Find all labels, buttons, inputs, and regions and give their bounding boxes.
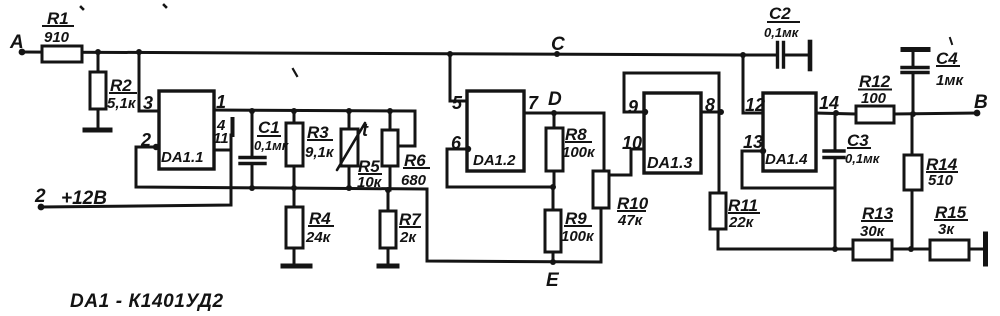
svg-text:100к: 100к xyxy=(561,228,595,245)
svg-text:12: 12 xyxy=(745,95,765,115)
svg-text:510: 510 xyxy=(928,172,954,189)
svg-text:100к: 100к xyxy=(562,144,596,161)
svg-text:3: 3 xyxy=(143,93,153,113)
svg-text:2: 2 xyxy=(140,130,151,150)
svg-text:30к: 30к xyxy=(860,223,886,240)
svg-text:1мк: 1мк xyxy=(936,72,964,89)
svg-text:C2: C2 xyxy=(769,4,791,23)
svg-text:5,1к: 5,1к xyxy=(107,95,137,112)
svg-text:9: 9 xyxy=(628,97,638,117)
svg-text:22к: 22к xyxy=(728,214,755,231)
svg-text:0,1мк: 0,1мк xyxy=(845,151,881,166)
svg-text:DA1.2: DA1.2 xyxy=(473,152,516,169)
svg-text:t: t xyxy=(362,120,369,140)
svg-text:24к: 24к xyxy=(305,229,332,246)
svg-text:13: 13 xyxy=(743,132,763,152)
svg-text:E: E xyxy=(546,270,560,291)
svg-text:9,1к: 9,1к xyxy=(305,144,335,161)
svg-text:DA1 - К1401УД2: DA1 - К1401УД2 xyxy=(70,291,224,312)
svg-text:1: 1 xyxy=(216,92,226,112)
svg-text:3к: 3к xyxy=(938,221,955,238)
svg-text:A: A xyxy=(9,32,24,53)
svg-text:14: 14 xyxy=(819,93,839,113)
svg-text:0,1мк: 0,1мк xyxy=(254,138,290,153)
svg-text:910: 910 xyxy=(44,29,70,46)
svg-text:7: 7 xyxy=(528,93,539,113)
svg-text:10к: 10к xyxy=(357,174,383,191)
svg-text:6: 6 xyxy=(451,133,462,153)
svg-text:DA1.3: DA1.3 xyxy=(647,155,692,172)
svg-text:DA1.1: DA1.1 xyxy=(161,149,204,166)
svg-text:11: 11 xyxy=(213,130,229,147)
svg-text:+12В: +12В xyxy=(61,188,107,209)
svg-text:47к: 47к xyxy=(617,212,644,229)
svg-text:8: 8 xyxy=(705,95,715,115)
svg-text:10: 10 xyxy=(622,133,642,153)
svg-text:В: В xyxy=(974,92,988,113)
svg-text:5: 5 xyxy=(452,93,463,113)
svg-text:100: 100 xyxy=(861,90,887,107)
svg-text:0,1мк: 0,1мк xyxy=(764,25,800,40)
svg-text:2: 2 xyxy=(34,186,46,207)
svg-text:DA1.4: DA1.4 xyxy=(765,151,808,168)
svg-text:680: 680 xyxy=(401,172,427,189)
svg-text:D: D xyxy=(548,89,562,110)
svg-text:C1: C1 xyxy=(258,118,280,137)
svg-text:R12: R12 xyxy=(859,72,891,91)
svg-text:C: C xyxy=(551,34,565,55)
svg-text:2к: 2к xyxy=(399,229,417,246)
